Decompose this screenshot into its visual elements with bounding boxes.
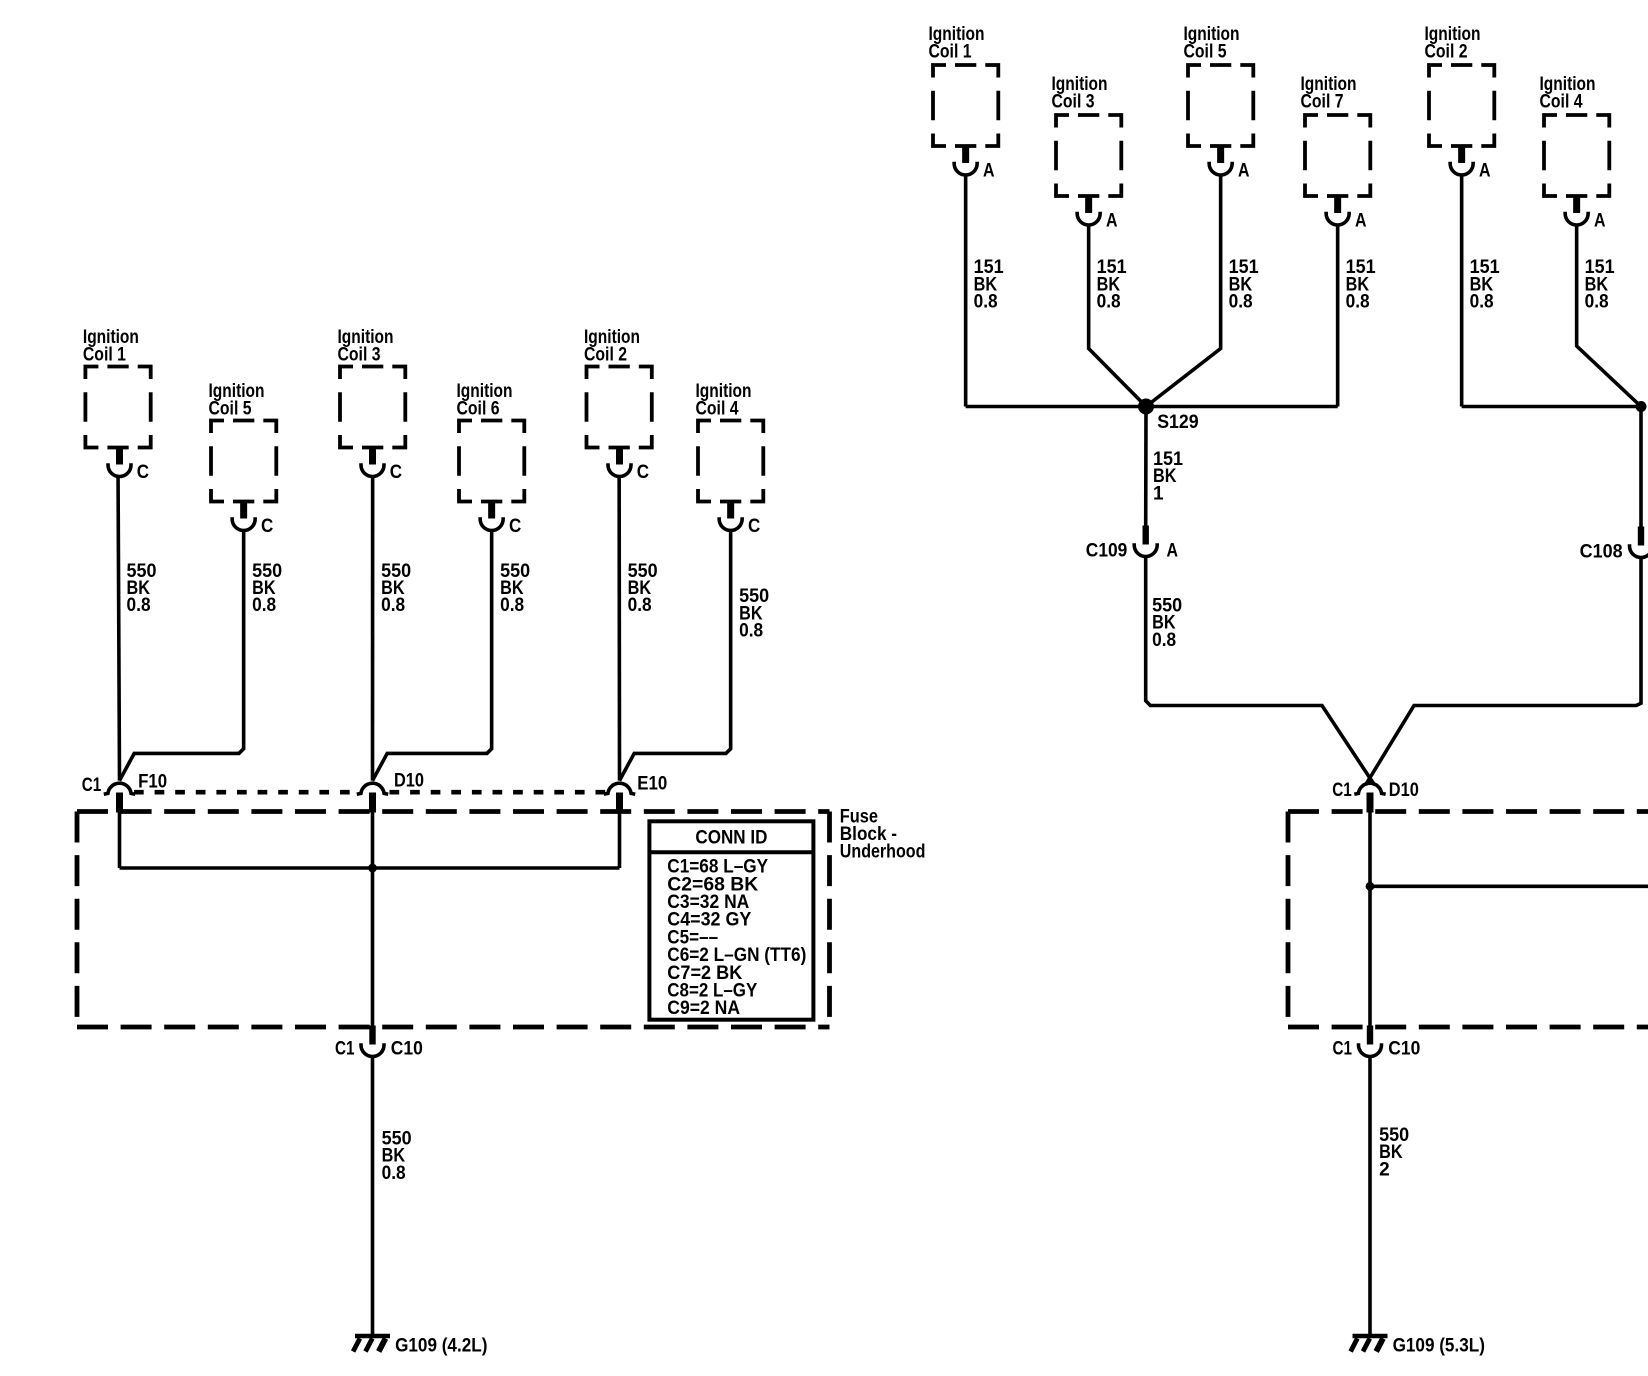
- wire E10 to bus: [618, 812, 622, 869]
- connector C1 pin C10 (left): [369, 1026, 375, 1045]
- svg-text:A: A: [1106, 211, 1118, 232]
- svg-text:F10: F10: [138, 772, 167, 793]
- svg-text:D10: D10: [1389, 780, 1419, 801]
- svg-text:CONN ID: CONN ID: [695, 828, 767, 849]
- connector C1 pin D10: [369, 793, 376, 813]
- ground G109 (5.3L): [1353, 1334, 1388, 1338]
- svg-text:E10: E10: [637, 774, 667, 795]
- branch wire inside right fuse block: [1370, 884, 1648, 888]
- svg-text:Coil 1: Coil 1: [83, 344, 126, 365]
- svg-text:C1: C1: [335, 1039, 355, 1060]
- svg-text:Coil 2: Coil 2: [584, 344, 627, 365]
- svg-text:G109 (5.3L): G109 (5.3L): [1393, 1336, 1485, 1357]
- svg-text:C10: C10: [391, 1039, 423, 1060]
- connector C1 pin C10 (right): [1367, 1026, 1373, 1045]
- svg-text:A: A: [983, 161, 995, 182]
- wire 151 BK to C108: [1639, 407, 1643, 527]
- fuse block - underhood (left) dashed box: [77, 809, 830, 814]
- wire 550 BK C109 down: [1146, 557, 1375, 785]
- svg-text:S129: S129: [1157, 412, 1199, 433]
- wire 550 BK coil2 to E10: [617, 476, 621, 781]
- svg-text:C: C: [748, 516, 761, 537]
- ground G109 (4.2L): [355, 1334, 390, 1338]
- svg-text:Coil 1: Coil 1: [929, 41, 972, 62]
- wire 550 BK coil6 to D10: [373, 530, 492, 781]
- wire 151 BK coil2 (5.3L): [1460, 175, 1464, 407]
- svg-text:C10: C10: [1388, 1039, 1420, 1060]
- svg-text:0.8: 0.8: [127, 595, 151, 616]
- dotted connector line C1 (F10-D10): [134, 790, 361, 795]
- wire 550 BK coil5 to F10: [120, 530, 244, 781]
- wire 151 BK coil7 (5.3L): [1336, 225, 1340, 407]
- svg-text:0.8: 0.8: [1229, 292, 1253, 313]
- svg-text:0.8: 0.8: [1097, 292, 1121, 313]
- wire 151 BK coil3 (5.3L): [1089, 225, 1146, 407]
- wire 151 BK coil4 (5.3L): [1577, 225, 1641, 407]
- svg-text:Coil 4: Coil 4: [1540, 91, 1583, 112]
- svg-text:0.8: 0.8: [1470, 292, 1494, 313]
- svg-text:Coil 6: Coil 6: [457, 398, 500, 419]
- svg-text:A: A: [1355, 211, 1367, 232]
- connector C1 pin E10: [616, 793, 623, 813]
- svg-text:D10: D10: [394, 771, 424, 792]
- bus wire into splice S129: [966, 405, 1338, 409]
- dotted connector line C1 (D10-E10): [390, 790, 606, 795]
- svg-text:0.8: 0.8: [382, 1163, 406, 1184]
- wire 550 BK coil3 to D10: [371, 476, 375, 781]
- svg-text:C: C: [137, 462, 150, 483]
- wire 151 BK coil5 (5.3L): [1146, 175, 1221, 407]
- wire 151 BK coil1 (5.3L): [964, 175, 968, 407]
- svg-text:G109 (4.2L): G109 (4.2L): [395, 1336, 487, 1357]
- svg-text:C: C: [390, 462, 403, 483]
- svg-text:0.8: 0.8: [974, 292, 998, 313]
- connector C1 pin F10: [116, 793, 123, 813]
- connector C109 pin A: [1143, 526, 1149, 545]
- wire 550 BK to G109 (4.2L): [371, 1057, 375, 1336]
- junction dot right fuse block: [1366, 882, 1375, 891]
- wire 151 BK S129 to C109: [1144, 407, 1148, 526]
- svg-text:Coil 5: Coil 5: [1184, 41, 1227, 62]
- fuse block - underhood (right) dashed box: [1288, 809, 1648, 814]
- svg-text:Coil 3: Coil 3: [338, 344, 381, 365]
- svg-text:C: C: [509, 516, 522, 537]
- svg-text:C: C: [637, 462, 650, 483]
- bus wire coil2 to right junction: [1462, 405, 1641, 409]
- svg-text:0.8: 0.8: [500, 595, 524, 616]
- junction dot right of coil 2: [1636, 401, 1647, 412]
- CONN ID table: [649, 821, 813, 1019]
- svg-text:A: A: [1479, 161, 1491, 182]
- svg-text:Coil 4: Coil 4: [696, 398, 739, 419]
- svg-text:C1: C1: [1333, 1039, 1353, 1060]
- svg-text:Coil 7: Coil 7: [1301, 91, 1344, 112]
- wire D10 through right fuse block: [1368, 812, 1372, 1028]
- wire D10 through fuse block: [371, 812, 375, 1028]
- connector C108: [1638, 527, 1644, 546]
- svg-text:C1: C1: [82, 775, 102, 796]
- svg-text:0.8: 0.8: [628, 595, 652, 616]
- wire 550 BK C108 down: [1366, 558, 1642, 785]
- svg-text:A: A: [1594, 211, 1606, 232]
- wire F10 to bus: [118, 812, 122, 869]
- svg-text:0.8: 0.8: [1585, 292, 1609, 313]
- svg-text:C9=2 NA: C9=2 NA: [667, 998, 740, 1019]
- svg-text:0.8: 0.8: [739, 621, 763, 642]
- svg-text:C1: C1: [1332, 780, 1352, 801]
- svg-text:0.8: 0.8: [252, 595, 276, 616]
- svg-text:Coil 5: Coil 5: [209, 398, 252, 419]
- svg-text:C: C: [261, 516, 274, 537]
- junction dot left bus: [368, 864, 377, 873]
- connector C1 pin D10 (right): [1367, 793, 1374, 813]
- svg-text:C109: C109: [1086, 541, 1128, 562]
- svg-text:C108: C108: [1580, 542, 1623, 563]
- bus wire inside fuse block: [120, 866, 620, 870]
- splice S129 dot: [1138, 399, 1154, 415]
- svg-text:2: 2: [1379, 1159, 1390, 1180]
- svg-text:Underhood: Underhood: [840, 842, 926, 863]
- svg-text:0.8: 0.8: [1152, 630, 1176, 651]
- wire 550 BK coil4 to E10: [620, 530, 731, 781]
- svg-text:A: A: [1167, 541, 1179, 562]
- svg-text:A: A: [1238, 161, 1250, 182]
- svg-text:0.8: 0.8: [1346, 292, 1370, 313]
- svg-text:Coil 3: Coil 3: [1052, 91, 1095, 112]
- svg-text:0.8: 0.8: [381, 595, 405, 616]
- wire 550 BK coil1 to F10: [118, 476, 119, 781]
- svg-text:Coil 2: Coil 2: [1425, 41, 1468, 62]
- svg-text:1: 1: [1153, 483, 1164, 504]
- wire 550 BK to G109 (5.3L): [1368, 1057, 1372, 1336]
